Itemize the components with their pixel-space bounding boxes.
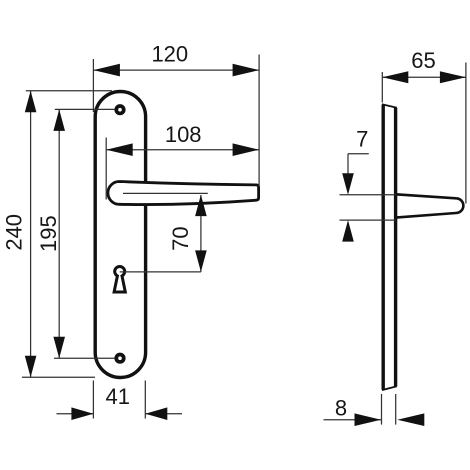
lever handle side view — [396, 194, 464, 217]
top screw — [116, 106, 123, 113]
dimension 7 — [340, 154, 396, 220]
svg-text:41: 41 — [106, 384, 130, 409]
svg-text:70: 70 — [168, 226, 193, 250]
svg-text:195: 195 — [36, 215, 61, 252]
lever inner detail line — [123, 192, 208, 194]
svg-text:120: 120 — [151, 42, 188, 67]
svg-text:108: 108 — [165, 122, 202, 147]
plate side view — [382, 104, 397, 390]
dimension 70 — [120, 195, 201, 272]
svg-text:240: 240 — [2, 214, 27, 251]
dimension 41 — [57, 381, 183, 419]
dimension 240 — [22, 91, 112, 378]
lever handle front view — [108, 181, 259, 204]
dimension 8 — [324, 394, 396, 425]
dimension 108 — [106, 138, 259, 200]
svg-text:65: 65 — [411, 48, 435, 73]
plate front view — [95, 92, 145, 378]
keyhole — [114, 266, 125, 292]
dimension 195 — [54, 109, 115, 358]
svg-text:8: 8 — [335, 396, 347, 421]
svg-text:7: 7 — [356, 127, 368, 152]
dimension 120 — [93, 55, 259, 187]
dimension 65 — [382, 63, 466, 204]
bottom screw — [116, 355, 123, 362]
